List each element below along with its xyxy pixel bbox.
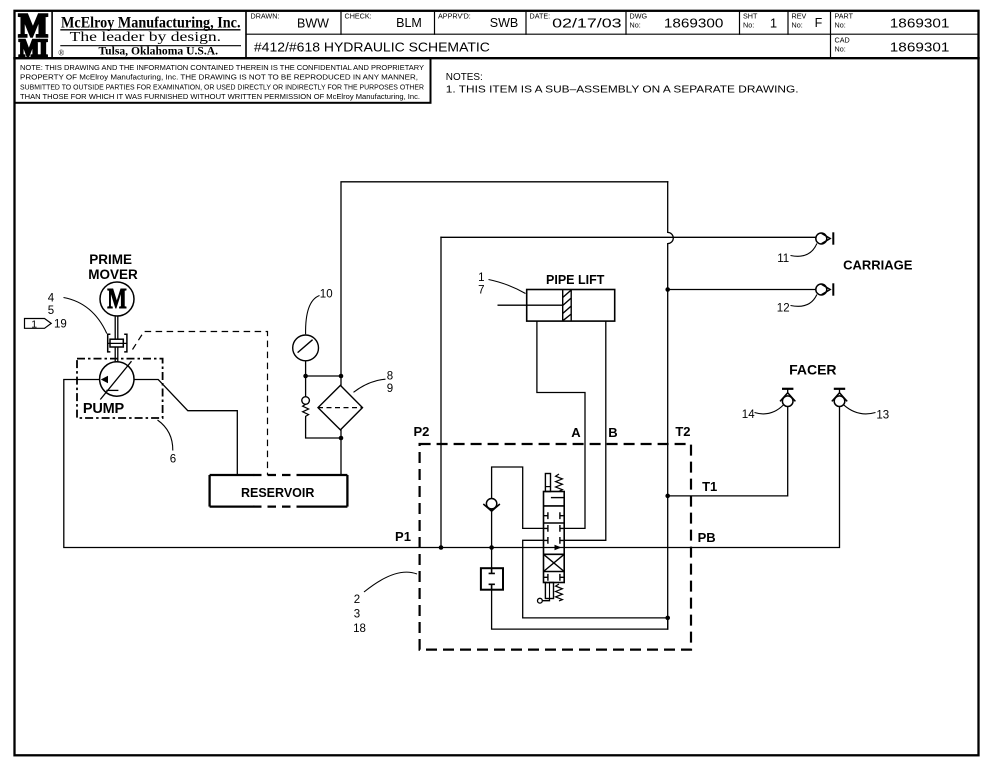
manifold dashed box: [420, 444, 691, 650]
filter element dashed: [318, 407, 363, 409]
leader 12: [791, 295, 817, 307]
svg-text:A: A: [571, 425, 581, 440]
svg-text:P1: P1: [395, 529, 411, 544]
svg-text:T1: T1: [702, 479, 717, 494]
wire pump suction to reservoir: [134, 380, 237, 476]
svg-text:SWB: SWB: [490, 16, 518, 30]
svg-text:BWW: BWW: [297, 16, 329, 30]
svg-text:M: M: [107, 284, 127, 315]
check valve seat: [483, 504, 500, 511]
wire orifice lower to bottom run: [492, 590, 668, 629]
junction filter outlet: [339, 436, 344, 441]
piston: [563, 290, 572, 322]
leader 6 to pump box: [158, 420, 173, 451]
piston rod: [498, 304, 563, 306]
svg-text:19: 19: [54, 318, 67, 330]
wire check valve to main line: [491, 510, 493, 548]
wire orifice upper: [491, 548, 493, 569]
bypass check valve circle: [302, 397, 310, 405]
orifice square: [481, 568, 503, 590]
wire T line vertical with crossover hop: [668, 182, 674, 629]
coupling: [108, 334, 127, 352]
junction P2 branch: [439, 545, 444, 550]
svg-text:®: ®: [58, 49, 64, 58]
note box text: [20, 63, 424, 101]
svg-text:APPRV'D:: APPRV'D:: [438, 12, 471, 21]
junction filter inlet: [339, 374, 344, 379]
svg-text:1869301: 1869301: [890, 16, 950, 31]
gauge needle: [298, 340, 313, 353]
svg-text:PART: PART: [835, 12, 854, 21]
svg-text:SUBMITTED TO OUTSIDE PARTIES F: SUBMITTED TO OUTSIDE PARTIES FOR EXAMINA…: [20, 82, 424, 91]
svg-text:THAN THOSE FOR WHICH IT WAS FU: THAN THOSE FOR WHICH IT WAS FURNISHED WI…: [20, 92, 420, 101]
svg-text:No:: No:: [792, 20, 803, 29]
item flag 1: [25, 319, 52, 329]
leader lines: [64, 244, 876, 593]
svg-text:11: 11: [777, 253, 789, 265]
company cell divider: [245, 11, 247, 58]
reservoir: [210, 475, 348, 507]
svg-text:DRAWN:: DRAWN:: [251, 12, 280, 21]
svg-text:7: 7: [478, 284, 484, 296]
svg-text:1869300: 1869300: [664, 16, 724, 31]
pipe lift cylinder: [527, 290, 615, 322]
svg-text:02/17/03: 02/17/03: [552, 16, 622, 31]
spool top spring: [556, 474, 563, 491]
logo cell divider: [51, 11, 53, 58]
general notes: [446, 71, 799, 95]
spool bottom spring: [556, 584, 563, 601]
wire carriage 11 line: [441, 236, 816, 238]
svg-text:1: 1: [770, 16, 777, 31]
pump diagonal: [100, 361, 131, 399]
svg-text:F: F: [815, 16, 823, 30]
svg-text:14: 14: [742, 409, 755, 421]
svg-text:1869301: 1869301: [890, 40, 950, 55]
spool pin operator: [538, 598, 543, 603]
spool top actuator tab: [545, 474, 550, 492]
svg-text:CARRIAGE: CARRIAGE: [843, 258, 913, 273]
svg-text:PIPE LIFT: PIPE LIFT: [546, 273, 605, 287]
leader 2 3 18 to manifold box: [364, 572, 417, 592]
shaft: [115, 316, 118, 362]
svg-text:10: 10: [320, 289, 333, 301]
wire P2 vertical: [440, 237, 442, 547]
column dividers: [340, 11, 342, 34]
svg-text:The leader by design.: The leader by design.: [70, 29, 222, 44]
svg-text:P2: P2: [413, 424, 429, 439]
svg-text:MI: MI: [19, 36, 48, 63]
title block bottom edge: [15, 57, 979, 59]
wire carriage 12 line: [668, 289, 816, 291]
row divider: [246, 33, 979, 35]
pump lower tick: [106, 389, 118, 391]
junction carriage 12 branch: [665, 287, 670, 292]
pump circle: [100, 362, 134, 396]
spool valve body: [544, 492, 565, 583]
spool blocked ports: [544, 512, 565, 580]
svg-text:No:: No:: [630, 20, 641, 29]
wire spool port to lower run: [523, 540, 668, 618]
company cell text: [58, 15, 240, 58]
facer QD 14: [780, 389, 795, 407]
spool bottom actuator tab: [545, 583, 553, 599]
gauge: [293, 335, 319, 361]
svg-text:MOVER: MOVER: [88, 267, 138, 282]
logo MMI: [19, 8, 49, 63]
wire gauge branch: [306, 361, 341, 376]
check valve ball: [486, 499, 496, 509]
leader 14: [755, 405, 784, 414]
spool top section passage: [551, 497, 564, 499]
svg-text:SHT: SHT: [743, 12, 758, 21]
power unit dashed boundary: [133, 332, 268, 476]
svg-text:18: 18: [353, 623, 366, 635]
svg-text:PUMP: PUMP: [83, 401, 125, 417]
svg-text:DATE:: DATE:: [530, 12, 551, 21]
svg-text:No:: No:: [835, 20, 846, 29]
wire check valve to spool: [492, 467, 544, 528]
svg-text:2: 2: [354, 594, 360, 606]
wire bypass check lower: [306, 418, 341, 438]
junction T1 branch: [665, 494, 670, 499]
wire pipe lift port A: [537, 321, 585, 528]
wire T1 line to facer 14: [668, 407, 788, 496]
svg-text:BLM: BLM: [396, 16, 422, 30]
wire pipe lift port B: [564, 321, 606, 540]
svg-text:PROPERTY OF McElroy Manufactur: PROPERTY OF McElroy Manufacturing, Inc. …: [20, 73, 418, 82]
leader 11: [791, 244, 817, 257]
leader 4 to coupling: [64, 298, 107, 334]
svg-text:6: 6: [170, 454, 176, 466]
svg-text:T2: T2: [675, 424, 690, 439]
svg-text:1: 1: [478, 272, 484, 284]
svg-text:No:: No:: [743, 20, 754, 29]
bypass spring: [303, 404, 309, 418]
svg-text:#412/#618 HYDRAULIC SCHEMATIC: #412/#618 HYDRAULIC SCHEMATIC: [254, 40, 490, 55]
svg-text:5: 5: [48, 305, 54, 317]
svg-text:REV: REV: [792, 12, 807, 21]
svg-text:RESERVOIR: RESERVOIR: [241, 486, 314, 500]
pump dash-dot box: [77, 359, 163, 418]
svg-text:NOTES:: NOTES:: [446, 71, 483, 83]
facer QD 13: [832, 389, 847, 407]
leader 10 to gauge: [306, 296, 320, 335]
svg-text:FACER: FACER: [789, 362, 836, 378]
svg-text:3: 3: [354, 609, 360, 621]
svg-text:No:: No:: [835, 44, 846, 53]
leader 1 7 to cylinder: [489, 280, 526, 294]
note box: [15, 58, 431, 103]
leader 8 9 to filter: [354, 379, 386, 392]
leader 13: [844, 405, 876, 414]
wire filter line and top run: [341, 182, 668, 475]
junction gauge branch: [303, 374, 308, 379]
svg-text:12: 12: [777, 303, 790, 315]
filter diamond: [318, 385, 363, 430]
motor circle: [100, 282, 134, 316]
svg-text:CHECK:: CHECK:: [345, 12, 372, 21]
junction check valve branch: [489, 545, 494, 550]
spool P flow arrow: [555, 545, 562, 550]
carriage QD 11: [816, 232, 834, 244]
svg-text:CAD: CAD: [835, 36, 850, 45]
svg-text:1. THIS ITEM IS A SUB–ASSEMBLY: 1. THIS ITEM IS A SUB–ASSEMBLY ON A SEPA…: [446, 83, 799, 95]
svg-text:9: 9: [387, 383, 393, 395]
wire pump discharge to P1 main line to facer 13: [64, 380, 840, 548]
svg-text:8: 8: [387, 371, 393, 383]
svg-text:DWG: DWG: [630, 12, 648, 21]
svg-text:1: 1: [31, 318, 37, 330]
pump outlet arrow: [101, 376, 108, 384]
junction tank return: [665, 616, 670, 621]
spool crossed section: [544, 554, 565, 571]
svg-text:13: 13: [876, 410, 889, 422]
svg-text:4: 4: [48, 293, 55, 305]
svg-text:PRIME: PRIME: [89, 252, 132, 267]
svg-text:PB: PB: [698, 530, 716, 545]
svg-text:B: B: [608, 425, 617, 440]
carriage QD 12: [816, 283, 834, 295]
svg-text:NOTE: THIS DRAWING AND THE INF: NOTE: THIS DRAWING AND THE INFORMATION C…: [20, 63, 424, 72]
title block row 1 texts: [251, 12, 950, 55]
wire bypass check upper: [305, 376, 307, 397]
svg-text:Tulsa, Oklahoma U.S.A.: Tulsa, Oklahoma U.S.A.: [99, 46, 219, 58]
